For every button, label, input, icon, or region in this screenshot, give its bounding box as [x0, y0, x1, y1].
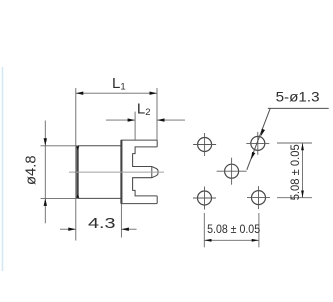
svg-text:5-ø1.3: 5-ø1.3 — [276, 90, 320, 105]
svg-text:4.3: 4.3 — [88, 215, 116, 232]
svg-text:5.08 ± 0.05: 5.08 ± 0.05 — [290, 144, 302, 200]
svg-text:5.08 ± 0.05: 5.08 ± 0.05 — [207, 222, 260, 236]
svg-text:ø4.8: ø4.8 — [23, 155, 40, 185]
